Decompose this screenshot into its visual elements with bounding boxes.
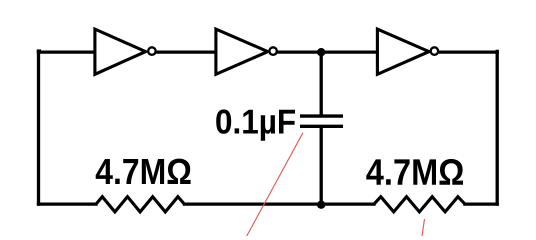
inverter 2 (triangle) <box>216 29 268 74</box>
red annotation line from 0.1uF label down to bottom edge <box>247 133 304 237</box>
resistor R1 zigzag <box>96 197 184 212</box>
wire: resistor R2 right lead to bottom-right corner <box>465 202 497 205</box>
capacitor C1 top plate <box>300 114 343 117</box>
wire: inverter 1 output to inverter 2 input <box>157 50 217 53</box>
node A junction dot <box>317 48 325 56</box>
inverter 3 output bubble <box>431 47 439 55</box>
node B junction dot <box>317 201 325 209</box>
wire: right vertical side <box>496 51 499 204</box>
resistor R2 zigzag <box>374 197 465 212</box>
wire: inverter 3 output to top-right corner <box>439 50 497 53</box>
wire joint nub at top-left corner <box>37 49 41 52</box>
wire: bottom-left segment to resistor R1 <box>39 202 97 205</box>
wire: capacitor branch from node A down to top plate <box>320 52 323 114</box>
wire: capacitor bottom plate down to node B <box>320 128 323 204</box>
inverter 1 output bubble <box>148 47 156 55</box>
red annotation tick below resistor R2 <box>422 219 425 236</box>
value label 4.7Mohm for resistor R2 <box>366 159 463 185</box>
wire: inverter 2 output to node A <box>278 50 321 53</box>
inverter 2 output bubble <box>269 47 277 55</box>
inverter 3 (triangle) <box>377 29 429 74</box>
wire: resistor R1 right lead to node B <box>184 202 321 205</box>
value label 4.7Mohm for resistor R1 <box>96 159 191 184</box>
capacitor C1 bottom plate <box>300 125 343 128</box>
value label 0.1uF for capacitor C1 <box>216 109 295 140</box>
wire: node A to inverter 3 input <box>321 50 378 53</box>
inverter 1 (triangle) <box>95 29 146 74</box>
wire: node B to resistor R2 left lead <box>321 202 374 205</box>
wire: top-left segment to inverter 1 input <box>39 50 96 53</box>
wire: left vertical side <box>37 52 40 204</box>
